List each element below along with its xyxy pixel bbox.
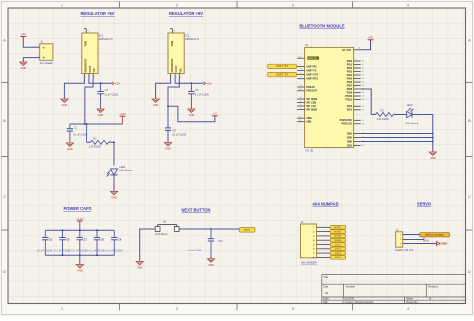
- wire J3 pin 7: [317, 252, 331, 254]
- wire J3 pin 6: [317, 248, 331, 250]
- svg-text:GND: GND: [208, 263, 214, 267]
- pin 24 PIO5 of U2: [347, 78, 365, 80]
- svg-text:Revision: Revision: [428, 284, 439, 288]
- wire B1 to GND: [140, 229, 155, 261]
- wire top rail (power caps): [45, 229, 114, 231]
- capacitor C5 0.1 uF (output of IC2): [188, 83, 209, 109]
- port COL1: [330, 243, 345, 247]
- port ROW4: [330, 238, 345, 242]
- wire +V feed to IC2 input: [168, 106, 215, 121]
- svg-text:0.1 uF C1206: 0.1 uF C1206: [106, 250, 123, 252]
- svg-text:HC-05: HC-05: [305, 149, 313, 153]
- svg-text:GND: GND: [21, 66, 27, 70]
- capacitor C2 10 uF: [37, 230, 53, 255]
- svg-text:Push Button: Push Button: [155, 233, 168, 236]
- svg-text:GND: GND: [347, 141, 352, 143]
- power port GND (servo): [437, 242, 448, 246]
- svg-text:Size: Size: [323, 284, 329, 288]
- wire J3 pin 3: [317, 235, 331, 237]
- svg-text:0.1 uF C1206: 0.1 uF C1206: [73, 135, 88, 137]
- wire J3 pin 1: [317, 226, 331, 228]
- svg-text:UART-RX: UART-RX: [306, 65, 317, 68]
- wire +5V to J1 pin1: [23, 36, 39, 47]
- port NEXT: [239, 228, 255, 233]
- wire +12V to top rail: [79, 221, 81, 230]
- wire IC2 pin1 to GND: [156, 78, 171, 99]
- pin 4 TAB of IC2: [170, 29, 175, 33]
- section title SERVO: [417, 202, 432, 207]
- wire R2 to LED1: [393, 114, 406, 116]
- svg-text:+12V: +12V: [119, 112, 126, 116]
- title block: [322, 275, 466, 304]
- svg-text:SPI_MISO: SPI_MISO: [306, 109, 317, 111]
- svg-text:ROW1: ROW1: [334, 227, 341, 229]
- svg-text:AIO0: AIO0: [347, 105, 353, 108]
- svg-text:IC2: IC2: [185, 34, 190, 38]
- port UART_RX: [268, 64, 297, 68]
- svg-text:PIO2: PIO2: [347, 68, 353, 70]
- port ROW3: [330, 234, 345, 238]
- wire J1 pin2 to GND: [23, 58, 39, 62]
- pin 4 UART-RTS of U2: [297, 77, 318, 81]
- pin 8 SPI_MISO of U2: [297, 108, 317, 112]
- svg-text:0.1 uF C1206: 0.1 uF C1206: [72, 250, 89, 252]
- svg-text:ROW4: ROW4: [334, 239, 341, 242]
- svg-text:UART-RTS: UART-RTS: [306, 78, 318, 81]
- svg-text:REGULATOR +9V: REGULATOR +9V: [169, 11, 203, 16]
- ground (C4): [165, 143, 172, 151]
- section title 4X4 NUMPAD: [312, 202, 338, 207]
- svg-text:IC1: IC1: [99, 34, 104, 38]
- section title BLUETOOTH MODULE: [299, 24, 344, 29]
- pin 3 UART-CTS of U2: [297, 73, 318, 77]
- power +5V (J1 input): [20, 32, 26, 36]
- svg-text:AIO1: AIO1: [347, 109, 353, 112]
- pin 15 AIO1 of U2: [347, 109, 365, 112]
- svg-text:0.1 uF C1206: 0.1 uF C1206: [172, 134, 187, 136]
- pin 26 PIO7 of U2: [347, 85, 365, 87]
- wire J3 pin 2: [317, 231, 331, 233]
- pin 19 PIO0 of U2: [347, 61, 365, 63]
- ground (LED1): [111, 191, 118, 199]
- pin 7 SPI_CLK of U2: [297, 104, 316, 108]
- pin 18 PCM-CLK of U2: [341, 124, 365, 126]
- svg-text:UART-TX: UART-TX: [306, 69, 317, 72]
- svg-text:0.1 uF C1206: 0.1 uF C1206: [195, 94, 210, 96]
- svg-text:USB+: USB+: [306, 118, 313, 120]
- pin 14 AIO0 of U2: [347, 105, 365, 108]
- wire IC1 VIN to input rail: [85, 78, 93, 124]
- resistor R1 1.3K: [87, 138, 111, 149]
- svg-text:PIO6: PIO6: [347, 82, 353, 84]
- wire bottom rail (power caps): [45, 254, 114, 256]
- ground (C10): [208, 259, 215, 267]
- svg-text:PIO0: PIO0: [347, 61, 353, 63]
- capacitor C4 0.1 uF (input of IC2): [165, 128, 187, 143]
- svg-text:+V: +V: [213, 112, 217, 116]
- svg-text:4: 4: [407, 307, 409, 311]
- svg-text:PIO1: PIO1: [347, 64, 353, 66]
- power port +5V (output of IC1): [112, 82, 120, 86]
- svg-text:PIO10: PIO10: [345, 96, 352, 98]
- svg-text:U2: U2: [305, 43, 309, 47]
- section title NEXT BUTTON: [181, 208, 210, 213]
- svg-text:PIO4: PIO4: [347, 74, 353, 77]
- svg-text:RED diffused: RED diffused: [120, 170, 133, 172]
- svg-text:COL3: COL3: [335, 253, 342, 255]
- svg-text:AMS1117-5: AMS1117-5: [99, 37, 113, 41]
- LED1 RED diffused (bluetooth): [406, 104, 419, 125]
- svg-text:GND: GND: [98, 113, 104, 117]
- wire J2 pin2 to +5V: [403, 238, 430, 243]
- ground (IC1 pin1): [61, 99, 68, 107]
- resistor R2 1.3K: [374, 110, 395, 121]
- svg-text:TAB: TAB: [170, 41, 174, 47]
- capacitor C1 0.1 uF (input of IC1): [67, 124, 88, 143]
- capacitor C3 0.1 uF (output of IC1): [97, 83, 118, 109]
- ground (C5): [188, 109, 195, 117]
- svg-text:COL2: COL2: [335, 249, 342, 251]
- svg-text:GND: GND: [67, 147, 73, 151]
- svg-text:RED diffused: RED diffused: [406, 123, 419, 125]
- connector J1 2x1 Header: [40, 40, 54, 65]
- svg-text:GND: GND: [347, 137, 352, 139]
- svg-text:PIO11: PIO11: [346, 99, 353, 101]
- pin GND2 of U2: [347, 137, 434, 140]
- svg-text:NEXT: NEXT: [244, 230, 251, 232]
- svg-text:1.3K R1206: 1.3K R1206: [377, 119, 390, 121]
- svg-text:POWER CAPS: POWER CAPS: [64, 206, 92, 211]
- svg-text:2x1 Header: 2x1 Header: [40, 61, 54, 65]
- capacitor C9 0.1 uF: [106, 230, 123, 255]
- wire rail to resistor R1: [86, 123, 88, 142]
- power +5V (U2): [368, 36, 374, 40]
- svg-text:PIO5: PIO5: [347, 78, 353, 80]
- pin 5 SPI_MOSI of U2: [297, 97, 317, 101]
- svg-text:GND: GND: [153, 103, 159, 107]
- svg-text:2: 2: [176, 4, 178, 8]
- pin GND1 of U2: [347, 133, 434, 136]
- wire IC1 pin1 to GND: [64, 78, 84, 99]
- pin 17 PCM-SYNC of U2: [340, 120, 365, 122]
- svg-text:UART-CTS: UART-CTS: [306, 74, 318, 77]
- svg-text:+5V: +5V: [425, 239, 430, 243]
- pin 30 PIO11 of U2: [346, 99, 365, 101]
- svg-text:3: 3: [292, 307, 294, 311]
- wire LED1 to GND rail: [412, 115, 432, 153]
- svg-text:PIO7: PIO7: [347, 85, 353, 87]
- power +12V (power caps): [76, 217, 84, 221]
- wire IC2 VOUT to output port: [175, 78, 203, 84]
- wire J2 pin1 to servo signal port: [403, 234, 421, 236]
- svg-text:GND: GND: [137, 265, 143, 269]
- svg-text:1: 1: [374, 113, 375, 115]
- svg-text:VOUT: VOUT: [89, 65, 92, 72]
- ground (B1 left): [136, 261, 143, 269]
- svg-text:COL4: COL4: [335, 256, 342, 259]
- svg-text:VIN: VIN: [179, 68, 182, 72]
- capacitor C10 0.1 uF: [188, 229, 223, 259]
- svg-text:A4: A4: [325, 291, 329, 295]
- svg-text:PIO8: PIO8: [347, 89, 353, 91]
- wire input rail (IC1): [70, 123, 123, 125]
- ground (C1): [66, 143, 73, 151]
- port COL4: [330, 256, 345, 260]
- svg-text:GND/ADJST: GND/ADJST: [85, 58, 88, 73]
- ground (U2): [429, 152, 436, 160]
- svg-text:TAB: TAB: [84, 41, 88, 47]
- pin 2 UART-TX of U2: [297, 69, 317, 73]
- pin 1 UART-RX of U2: [297, 65, 317, 69]
- svg-text:10 uF C1206: 10 uF C1206: [37, 250, 53, 252]
- svg-text:LED1: LED1: [407, 104, 414, 107]
- port COL3: [330, 251, 345, 255]
- svg-text:1.3K R1206: 1.3K R1206: [89, 147, 102, 149]
- capacitor C6 0.1 uF: [54, 230, 71, 255]
- svg-text:PCM-SYNC: PCM-SYNC: [340, 120, 353, 122]
- svg-text:+12V: +12V: [76, 217, 84, 221]
- svg-text:0.1 uF C1206: 0.1 uF C1206: [54, 250, 71, 252]
- svg-text:2: 2: [176, 307, 178, 311]
- svg-text:VIN: VIN: [93, 68, 96, 72]
- svg-text:GND/ADJST: GND/ADJST: [171, 58, 174, 73]
- svg-text:RESETB: RESETB: [308, 58, 317, 60]
- wire IC2 VIN down to C4: [167, 78, 179, 128]
- svg-text:SPI_CSB: SPI_CSB: [306, 102, 316, 104]
- section title POWER CAPS: [64, 206, 92, 211]
- svg-text:Number: Number: [346, 284, 355, 288]
- pin GND3 of U2: [347, 141, 434, 144]
- pin 29 PIO10 of U2: [345, 96, 364, 98]
- bluetooth module U2 HC-05: [305, 43, 354, 152]
- svg-text:USB-: USB-: [306, 122, 312, 124]
- svg-text:NEXT BUTTON: NEXT BUTTON: [181, 208, 210, 213]
- pins 1 2 3 of IC1: [84, 74, 95, 79]
- pin 6 SPI_CSB of U2: [297, 101, 316, 105]
- svg-text:GND: GND: [165, 147, 171, 151]
- svg-text:SPI_MOSI: SPI_MOSI: [306, 99, 317, 101]
- svg-text:PCM-IN: PCM-IN: [306, 87, 315, 89]
- wire PIO8 to R2: [361, 89, 376, 115]
- voltage regulator IC2 AMS1117-9: [168, 33, 199, 74]
- pin 9 PCM-IN of U2: [297, 85, 315, 89]
- pin 11 RESETB of U2: [297, 56, 319, 60]
- port ROW2: [330, 230, 345, 234]
- pin 12 VCC of U2, wire to +5V: [354, 40, 371, 50]
- svg-text:File:: File:: [323, 300, 328, 304]
- svg-text:1: 1: [61, 4, 63, 8]
- ground (power caps): [76, 265, 83, 273]
- port ROW1: [330, 226, 345, 230]
- pin 16 USB- of U2: [297, 120, 312, 124]
- svg-text:PCM-CLK: PCM-CLK: [341, 124, 352, 126]
- wire J3 pin 8: [317, 256, 331, 258]
- svg-text:Drawn By:: Drawn By:: [406, 300, 418, 304]
- wire IC1 VOUT to output port: [89, 78, 112, 84]
- wire bottom rail to GND: [79, 255, 81, 264]
- wire R1 to LED1: [109, 141, 115, 165]
- pins 1 2 3 of IC2: [171, 74, 182, 79]
- pin 23 PIO4 of U2: [347, 74, 365, 77]
- section title REGULATOR +9V: [169, 11, 203, 16]
- LED1 RED diffused: [107, 166, 133, 177]
- pin 27 PIO8 of U2: [347, 89, 365, 91]
- svg-text:+5V: +5V: [21, 32, 26, 36]
- svg-text:GND: GND: [347, 145, 352, 147]
- pin 21 PIO2 of U2: [347, 68, 365, 70]
- svg-text:33_VCC: 33_VCC: [342, 49, 351, 52]
- svg-text:Header 2.54 1x3: Header 2.54 1x3: [395, 249, 413, 252]
- push button B1: [155, 220, 179, 236]
- svg-text:VOUT: VOUT: [175, 65, 178, 72]
- svg-text:UART_RX: UART_RX: [276, 65, 289, 68]
- svg-text:4: 4: [407, 4, 409, 8]
- ground (C3): [97, 109, 104, 117]
- svg-text:PIO3: PIO3: [347, 71, 353, 73]
- pin 28 PIO9 of U2: [347, 92, 365, 94]
- svg-text:1: 1: [89, 140, 90, 142]
- power port +9V (output of IC2): [204, 82, 212, 86]
- svg-text:ROW3: ROW3: [334, 236, 341, 238]
- svg-text:+5V: +5V: [368, 36, 373, 40]
- svg-text:SERVO-SIGNAL: SERVO-SIGNAL: [425, 234, 444, 237]
- svg-text:GND: GND: [77, 269, 83, 273]
- wire J3 pin 5: [317, 244, 331, 246]
- pin GND4 of U2: [347, 145, 365, 147]
- svg-text:C10: C10: [218, 241, 223, 243]
- svg-text:1: 1: [38, 46, 39, 48]
- svg-text:+9V: +9V: [206, 82, 211, 86]
- port SERVO-SIGNAL: [420, 233, 450, 237]
- svg-text:GND: GND: [111, 195, 117, 199]
- ground (IC2 pin1): [152, 99, 159, 107]
- svg-text:4X4 NUMPAD: 4X4 NUMPAD: [312, 202, 338, 207]
- wire J3 pin 4: [317, 239, 331, 241]
- svg-text:0.1 uF C1206: 0.1 uF C1206: [104, 94, 119, 96]
- svg-text:REGULATOR +5V: REGULATOR +5V: [80, 11, 114, 16]
- connector J3 8x1 header: [300, 221, 317, 265]
- port COL2: [330, 247, 345, 251]
- capacitor C7 0.1 uF: [72, 230, 89, 255]
- pin 22 PIO3 of U2: [347, 71, 365, 73]
- svg-text:PIO9: PIO9: [347, 92, 353, 94]
- svg-text:+5V: +5V: [115, 82, 120, 86]
- svg-text:of: of: [429, 297, 431, 301]
- svg-text:GND: GND: [347, 133, 352, 135]
- wire J2 pin3 to GND port: [403, 243, 438, 245]
- pin 15 USB+ of U2: [297, 116, 313, 120]
- voltage regulator IC1 AMS1117-5: [82, 33, 113, 74]
- ground (J1): [20, 62, 27, 70]
- power +V (input of IC2): [212, 112, 218, 116]
- svg-text:COL1: COL1: [335, 244, 342, 246]
- svg-text:PCM-OUT: PCM-OUT: [306, 91, 317, 93]
- pin 4 TAB of IC1: [84, 29, 89, 33]
- power +12V (input of IC1): [119, 112, 126, 124]
- svg-text:SERVO: SERVO: [417, 202, 432, 207]
- svg-text:C:\Users\..\Sheet1.SchDoc: C:\Users\..\Sheet1.SchDoc: [343, 300, 375, 304]
- svg-text:SPI_CLK: SPI_CLK: [306, 106, 316, 108]
- svg-text:AMS1117-9: AMS1117-9: [185, 37, 199, 41]
- svg-text:GND: GND: [441, 242, 447, 246]
- pin 20 PIO1 of U2: [347, 64, 365, 66]
- pin numbers of J1: [38, 46, 39, 58]
- port UART_TX: [268, 72, 297, 76]
- svg-text:ROW2: ROW2: [334, 231, 341, 233]
- svg-text:UART_TX: UART_TX: [276, 73, 288, 76]
- svg-text:8X1 HEADER: 8X1 HEADER: [301, 261, 317, 264]
- pin 25 PIO6 of U2: [347, 82, 365, 84]
- svg-text:0.1 uF C1206: 0.1 uF C1206: [89, 250, 106, 252]
- section title REGULATOR +5V: [80, 11, 114, 16]
- pin 10 PCM-OUT of U2: [297, 89, 318, 93]
- svg-text:GND: GND: [430, 156, 436, 160]
- svg-text:GND: GND: [62, 103, 68, 107]
- svg-text:1: 1: [61, 307, 63, 311]
- connector J2 servo header: [395, 229, 413, 252]
- svg-text:0.1 uF C1206: 0.1 uF C1206: [188, 250, 202, 252]
- wire LED1 cathode to GND: [113, 175, 115, 192]
- capacitor C8 0.1 uF: [89, 230, 106, 255]
- svg-text:GND: GND: [189, 113, 195, 117]
- svg-text:BLUETOOTH MODULE: BLUETOOTH MODULE: [299, 24, 344, 29]
- wire B1 to NEXT port: [179, 228, 239, 230]
- svg-text:LED1: LED1: [120, 166, 127, 169]
- svg-text:3: 3: [292, 4, 294, 8]
- svg-text:Title: Title: [323, 275, 328, 279]
